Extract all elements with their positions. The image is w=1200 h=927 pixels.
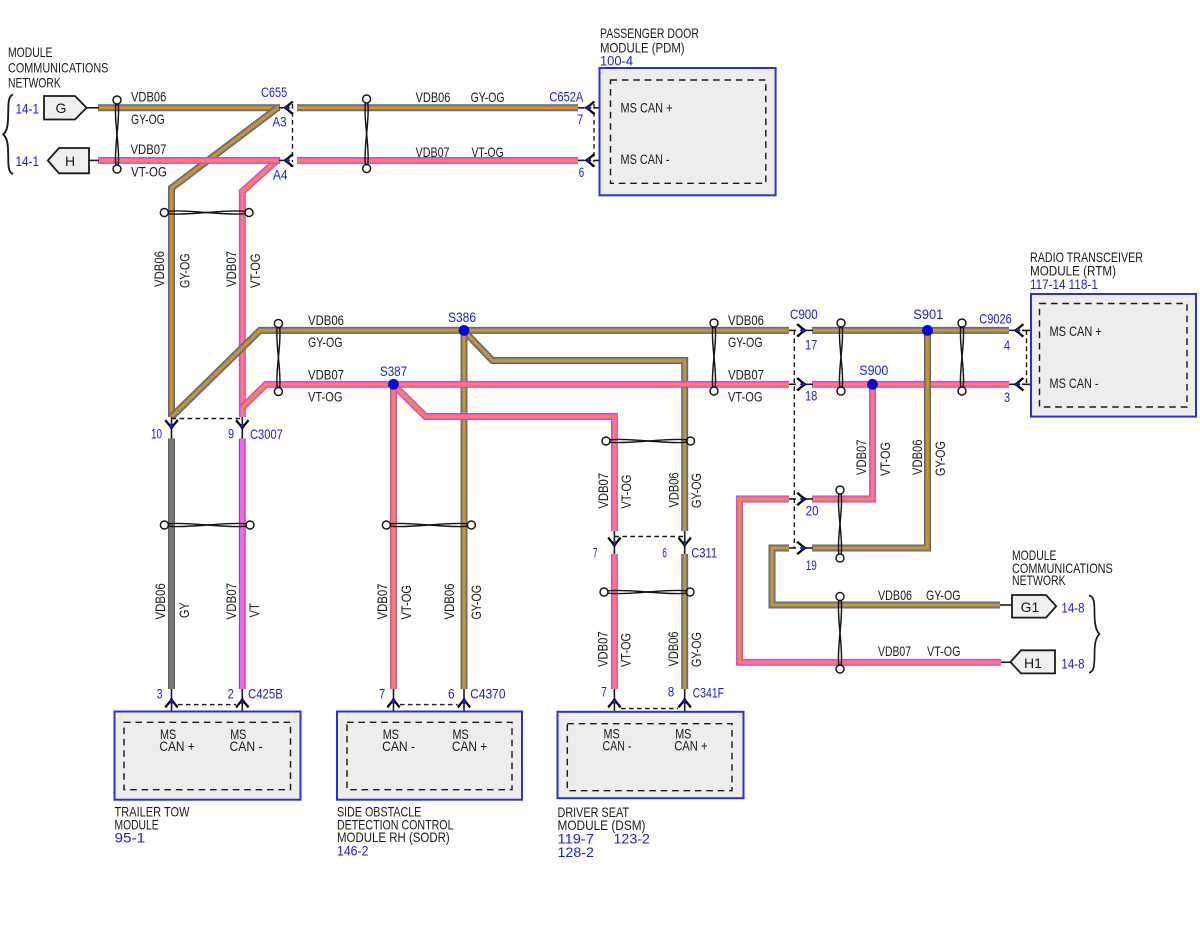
svg-text:CAN -: CAN - [230,738,263,754]
svg-text:S901: S901 [913,306,943,322]
svg-text:8: 8 [668,684,674,700]
pin stub C9026 pin 3 into RTM [1022,383,1040,385]
dashed connector line C311 [614,536,684,538]
svg-text:COMMUNICATIONS: COMMUNICATIONS [8,60,108,76]
off-page connector G [44,96,87,120]
svg-text:VDB07: VDB07 [223,583,239,620]
wire VDB07 VT-OG main run C3007 to C900 pin 18 [242,384,789,407]
lead wire to C655 arrow A3 [279,107,283,109]
svg-text:VDB06: VDB06 [152,583,168,619]
svg-text:C655: C655 [261,84,287,100]
svg-text:GY-OG: GY-OG [728,334,763,350]
svg-text:C425B: C425B [248,685,283,701]
svg-text:G1: G1 [1021,599,1040,615]
module box PASSENGER DOOR MODULE (PDM) [600,68,776,195]
svg-text:VDB07: VDB07 [131,141,167,157]
svg-text:VDB06: VDB06 [131,89,166,105]
svg-text:VDB07: VDB07 [878,643,911,659]
svg-text:VT-OG: VT-OG [618,633,634,667]
lead C900 pin 20 [789,498,796,500]
svg-text:14-8: 14-8 [1061,599,1084,615]
svg-text:VT-OG: VT-OG [131,163,167,179]
wire VDB06 GY-OG C900 pin 17 to C9026 [812,327,1009,334]
svg-text:VT: VT [246,603,262,618]
pin stub C341F pin 8 [684,689,686,723]
svg-text:S900: S900 [859,362,888,378]
lead wire to G1 [1000,604,1012,606]
svg-text:VDB07: VDB07 [223,251,239,287]
svg-text:VT-OG: VT-OG [618,475,634,509]
arrow C9026 pin 3 [1013,377,1024,391]
dashed connector line C655 [292,104,294,162]
module box DRIVER SEAT MODULE (DSM) [558,712,744,798]
splice S900 [867,379,878,390]
svg-text:C341F: C341F [693,685,725,701]
dashed connector line C3007 [172,418,243,420]
arrow C341F pin 7 [607,697,621,708]
arrow C900 pin 17 [796,323,807,337]
svg-text:117-14: 117-14 [1030,276,1066,292]
svg-text:CAN -: CAN - [382,738,415,754]
arrow C425B pin 2 [235,697,249,708]
arrow C311 pin 7 [607,537,621,548]
module box TRAILER TOW MODULE [115,712,301,800]
twisted pair symbol above C425B [160,521,254,529]
dashed connector line C900 [793,330,795,548]
svg-text:123-2: 123-2 [614,831,651,847]
svg-text:CAN -: CAN - [603,738,632,754]
svg-text:S387: S387 [380,363,407,379]
pin stub C425B pin 2 [241,689,243,723]
arrow C652A pin 7 [584,101,595,115]
svg-text:17: 17 [805,336,817,352]
pin stub C9026 pin 4 into RTM [1022,329,1040,331]
svg-text:2: 2 [228,685,234,701]
wire VDB06 GY-OG C311 pin 6 to C341F pin 8 [681,554,688,689]
svg-text:MS CAN -: MS CAN - [621,151,670,167]
svg-text:7: 7 [593,545,598,561]
svg-text:VDB06: VDB06 [878,587,912,603]
svg-text:VDB06: VDB06 [416,89,451,105]
svg-text:VDB06: VDB06 [909,439,925,475]
wire VDB06 GY-OG main run C3007 to C900 pin 17 [172,330,790,417]
pin stub C3007 pin 9 [241,417,243,439]
off-page connector H [48,148,89,173]
svg-text:6: 6 [448,685,455,701]
off-page connector H1 [1010,650,1055,673]
svg-text:9: 9 [228,426,234,442]
twisted pair symbol on wires to PDM [363,95,371,173]
wire VDB07 VT-OG C900 pin 20 to H1 [740,499,1002,662]
lead C900 pin 20 right [806,498,813,500]
dashed connector line C652A [593,104,595,162]
twisted pair symbol on main run before C900 [710,319,718,395]
svg-text:95-1: 95-1 [115,830,146,846]
wire VDB07 VT-OG diagonal C655 down to C3007 pin 9 [242,161,276,417]
arrow C3007 pin 9 [235,419,249,430]
svg-text:146-2: 146-2 [337,842,369,858]
svg-text:7: 7 [577,111,583,127]
svg-text:G: G [56,100,67,116]
arrow C655 pin A4 [283,153,294,167]
svg-text:S386: S386 [448,309,476,325]
wire VDB07 VT-OG from H to C655 [98,157,280,164]
dashed connector line C341F [621,708,678,710]
svg-text:MS CAN +: MS CAN + [621,99,673,115]
svg-text:14-1: 14-1 [16,153,40,169]
svg-text:14-8: 14-8 [1061,655,1084,671]
wire VDB06 GY-OG branch S901 to C900 pin 19 [812,331,928,548]
arrow C425B pin 3 [165,697,179,708]
wire VDB06 GY-OG branch S386 to C311 pin 6 [464,331,685,531]
lead C900 pin 18 right [806,383,813,385]
splice S386 [459,325,470,336]
arrow C4370 pin 6 [457,697,471,708]
lead C900 pin 19 [789,547,796,549]
svg-text:10: 10 [151,426,162,442]
svg-text:GY-OG: GY-OG [471,89,505,105]
dashed connector line C9026 [1026,330,1028,384]
svg-text:CAN +: CAN + [674,738,707,754]
pin stub C652A pin 7 into PDM [594,107,611,109]
svg-text:3: 3 [1004,389,1010,405]
svg-text:H1: H1 [1024,655,1042,671]
lead C900 pin 18 [789,383,796,385]
wire VDB06 GY-OG from C655 to C652A (PDM) [297,104,578,111]
arrow C655 pin A3 [283,101,294,115]
svg-text:100-4: 100-4 [600,53,633,69]
pin stub C652A pin 6 into PDM [594,159,611,161]
wire VDB07 VT-OG branch S900 to C900 pin 20 [812,385,873,499]
svg-text:A4: A4 [273,167,288,183]
svg-text:VDB07: VDB07 [595,631,611,667]
lead H pentagon to wire [88,159,99,161]
svg-text:4: 4 [1004,337,1010,353]
svg-text:VDB06: VDB06 [441,583,457,619]
svg-text:GY-OG: GY-OG [688,632,704,667]
svg-text:VDB07: VDB07 [416,144,450,160]
pin stub C341F pin 7 [613,689,615,723]
svg-text:C900: C900 [790,306,818,322]
lead wire to C655 arrow A4 [279,159,283,161]
arrow C9026 pin 4 [1013,323,1024,337]
brace left of G/H connectors [3,95,13,175]
pin stub C425B pin 3 [171,689,173,723]
arrow C652A pin 6 [584,153,595,167]
svg-text:H: H [65,153,75,169]
svg-text:VDB07: VDB07 [374,583,390,619]
svg-text:3: 3 [157,685,163,701]
svg-text:VDB06: VDB06 [151,251,167,287]
svg-text:NETWORK: NETWORK [8,75,61,91]
svg-text:14-1: 14-1 [16,101,40,117]
wire VDB06 GY-OG from G to C655 [98,104,280,111]
arrow C311 pin 6 [678,537,692,548]
wire VDB06 GY-OG C900 pin 19 to G1 [772,548,1000,605]
svg-text:VT-OG: VT-OG [728,389,763,405]
svg-text:19: 19 [806,557,817,573]
svg-text:GY-OG: GY-OG [468,585,484,620]
lead wire to H1 [1001,661,1011,663]
arrow C4370 pin 7 [387,697,401,708]
lead wire to C652A arrow pin 6 [578,159,585,161]
svg-text:C3007: C3007 [250,426,283,442]
pin stub C4370 pin 6 [463,689,465,723]
svg-text:C652A: C652A [549,89,583,105]
lead C900 pin 17 right [806,329,813,331]
pin stub C3007 pin 10 [171,417,173,439]
svg-text:7: 7 [601,684,607,700]
arrow C3007 pin 10 [165,419,179,430]
svg-text:VT-OG: VT-OG [472,144,504,160]
wire VDB07 VT-OG C311 pin 7 to C341F pin 7 [611,554,618,689]
splice S387 [388,379,399,390]
svg-text:6: 6 [662,545,667,561]
svg-text:VDB07: VDB07 [595,473,611,509]
twisted pair symbol on G/H wires near G [113,96,121,173]
wire VDB07 VT-OG branch S387 to C311 pin 7 [394,385,615,531]
dashed connector line C425B [178,704,236,706]
brace right of G1/H1 connectors [1089,596,1099,673]
pin stub C311 pin 6 [684,531,686,554]
svg-text:C9026: C9026 [979,310,1012,326]
svg-text:VDB06: VDB06 [665,472,681,507]
pin stub C4370 pin 7 [393,689,395,723]
arrow C900 pin 20 [796,492,807,506]
wire VDB07 VT-OG C900 pin 18 to C9026 [812,381,1009,388]
svg-text:NETWORK: NETWORK [1012,572,1066,588]
arrow C341F pin 8 [678,697,692,708]
arrow C900 pin 18 [796,377,807,391]
svg-text:GY-OG: GY-OG [932,441,948,476]
svg-text:VDB07: VDB07 [308,367,344,383]
lead G pentagon to wire [86,107,99,109]
lead C900 pin 17 [789,329,796,331]
twisted pair symbol above C341F [600,588,694,596]
twisted pair symbol on main run left [274,320,282,396]
module box RADIO TRANSCEIVER MODULE (RTM) [1031,294,1196,417]
svg-text:C4370: C4370 [470,685,505,701]
svg-text:VT-OG: VT-OG [247,254,263,289]
svg-text:VT-OG: VT-OG [927,643,961,659]
svg-text:GY-OG: GY-OG [308,334,343,350]
svg-text:VDB07: VDB07 [853,439,869,475]
svg-text:CAN +: CAN + [452,738,487,754]
wire VDB07 VT-OG from C655 to C652A (PDM) [297,157,578,164]
svg-text:7: 7 [379,685,385,701]
twisted pair symbol on C900 pins 19/20 wires [836,486,844,562]
svg-text:A3: A3 [273,114,287,130]
wire VDB07 VT-OG S387 down to C4370 pin 7 [390,385,397,689]
svg-text:GY-OG: GY-OG [926,587,961,603]
svg-text:MS CAN -: MS CAN - [1050,375,1099,391]
svg-text:VT-OG: VT-OG [308,389,343,405]
svg-text:GY: GY [176,602,192,618]
svg-text:128-2: 128-2 [558,844,595,860]
wire VDB07 VT solid C3007 pin 9 to C425B pin 2 [239,439,246,690]
wire VDB06 GY solid C3007 pin 10 to C425B pin 3 [168,439,175,690]
svg-text:VDB06: VDB06 [308,312,344,328]
svg-text:VDB07: VDB07 [728,367,764,383]
svg-text:VT-OG: VT-OG [398,585,414,620]
twisted pair symbol on wires to G1/H1 [836,593,844,674]
lead wire to C9026 arrow pin 3 [1009,383,1014,385]
twisted pair symbol before C9026 [958,319,966,395]
svg-text:6: 6 [579,164,585,180]
splice S901 [922,325,933,336]
svg-text:MS CAN +: MS CAN + [1050,323,1102,339]
lead wire to C9026 arrow pin 4 [1009,329,1014,331]
svg-text:118-1: 118-1 [1069,276,1099,292]
svg-text:VDB06: VDB06 [728,312,764,328]
svg-text:20: 20 [806,503,819,519]
svg-text:GY-OG: GY-OG [131,111,165,127]
wire VDB06 GY-OG S386 down to C4370 pin 6 [461,331,468,689]
module box SIDE OBSTACLE DETECTION CONTROL MODULE RH (SODR) [337,712,522,800]
lead C900 pin 19 right [806,547,813,549]
svg-text:MODULE: MODULE [8,44,52,60]
svg-text:18: 18 [805,388,817,404]
svg-text:GY-OG: GY-OG [688,473,704,508]
svg-text:VT-OG: VT-OG [877,442,893,476]
svg-text:C311: C311 [691,545,717,561]
twisted pair symbol after C900 [837,319,845,395]
twisted pair symbol above C4370 [382,521,475,529]
off-page connector G1 [1012,595,1056,618]
svg-text:GY-OG: GY-OG [176,254,192,289]
arrow C900 pin 19 [796,541,807,555]
wire VDB06 GY-OG diagonal C655 down to C3007 pin 10 [172,109,277,417]
svg-text:CAN +: CAN + [159,738,194,754]
pin stub C311 pin 7 [613,531,615,554]
twisted pair symbol on C655 vertical pair [160,209,253,217]
dashed connector line C4370 [400,704,458,706]
lead wire to C652A arrow pin 7 [578,107,585,109]
twisted pair symbol above C311 [602,437,695,445]
svg-text:VDB06: VDB06 [665,631,681,666]
